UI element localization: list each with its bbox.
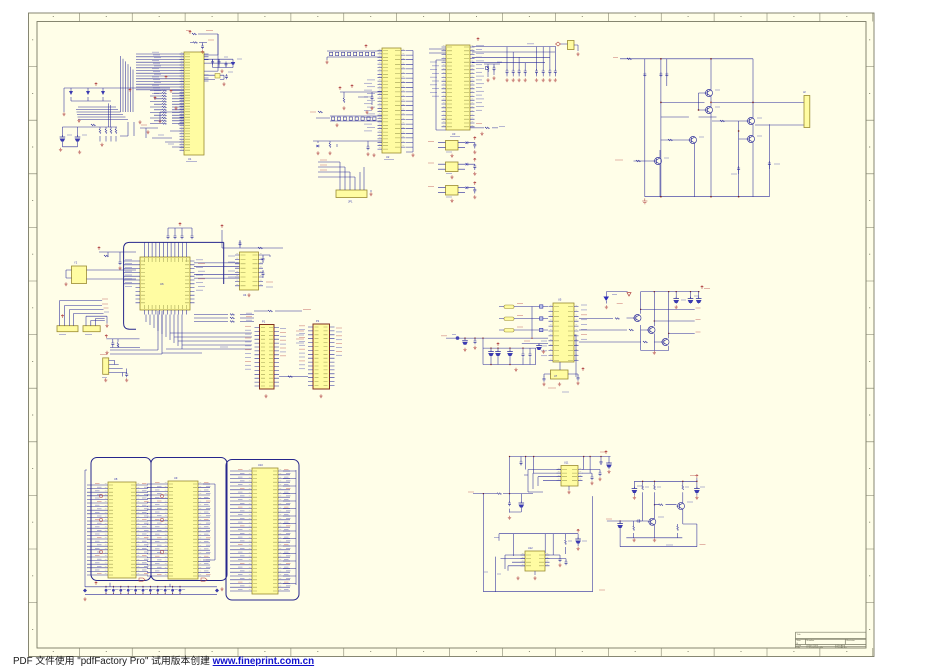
bypass caps C upper-left of stage [643, 59, 668, 197]
svg-text:U10: U10 [258, 463, 263, 467]
ground under crystal right of U1 [222, 82, 225, 86]
ground under R2 cap [201, 50, 204, 54]
svg-text:D:\Protel\mb.ddb: D:\Protel\mb.ddb [807, 646, 824, 649]
right parts of U11 [582, 470, 602, 485]
labels on JP1 wires [320, 160, 327, 170]
net labels on J3 wires [102, 299, 109, 312]
input line into Q10 [606, 519, 648, 523]
labels right of U3 pins [476, 46, 484, 111]
reset parts left-top of U6 [98, 247, 136, 270]
diode right of opto O3 [466, 186, 475, 189]
rail transistor block H3 [634, 475, 698, 489]
input filter diode/res/cap row [313, 141, 382, 150]
parts above J5 [105, 335, 140, 348]
transistor ref labels [664, 90, 762, 158]
crystal Y1 [556, 41, 579, 52]
ground under U2 right bus [411, 153, 414, 157]
resistor R2 above U1 [190, 40, 214, 49]
labels right of U8 [142, 484, 149, 574]
VCC opto O1 [473, 137, 476, 140]
junction dots H3 rail [620, 481, 698, 522]
VCC flag on resistor row [95, 582, 98, 585]
wires right of U8 [141, 485, 148, 575]
labels left of CON-A [245, 326, 251, 369]
op-amp U1 main controller [180, 52, 209, 162]
opto-coupler O3 [438, 186, 465, 196]
resistor network RN2 row [316, 111, 382, 121]
ground left end resistor row [83, 597, 86, 601]
labels on fan wires [220, 331, 304, 347]
resistor run right of QFP lower [254, 310, 311, 312]
wires QFP left pins to bus [124, 261, 136, 284]
voltage regulator U7 [544, 362, 578, 379]
labels left of U3 pins [430, 62, 439, 96]
ecap right on H3 rail [694, 487, 705, 500]
svg-text:U5: U5 [558, 298, 562, 302]
wire bus left of U3 [429, 49, 446, 130]
op-amp U10 memory IC [247, 463, 283, 594]
cap left of U11 [520, 457, 523, 466]
node diamonds on resistor row [83, 589, 219, 593]
bias parts middle-left of U2 [339, 85, 382, 105]
fuse F1 pill [499, 304, 548, 309]
mesh wires left of U12 [501, 555, 526, 571]
junction dots divider [464, 338, 532, 366]
opto-coupler O2 [438, 162, 465, 172]
top rail U12 [494, 529, 579, 556]
left vertical bus H [483, 494, 605, 592]
ground left of J5 [105, 351, 108, 355]
resistor right drop U12 [565, 540, 572, 554]
labels opto O2 [428, 163, 452, 174]
power VCC flag above diodes [95, 83, 98, 86]
wire power rail top-right block [620, 59, 769, 197]
decoupling ladder right of U1 [204, 57, 242, 68]
transistor Q4 [747, 136, 755, 143]
ferrite beads on F wires [540, 305, 543, 332]
grounds opto O3 [450, 195, 476, 202]
cap and ground at U7 [542, 368, 584, 386]
port arrow under card1 IC [139, 578, 145, 581]
svg-text:P2: P2 [316, 319, 320, 323]
labels around U5 [541, 305, 587, 356]
ground under card3 [220, 587, 223, 591]
svg-text:Number: Number [807, 639, 815, 642]
ground under U4 [247, 293, 250, 297]
ground bottom of output stage [642, 198, 647, 203]
ground under U3 run [480, 132, 483, 136]
connector J5 vertical header [103, 358, 127, 374]
wire bus into U1 left pins [76, 54, 184, 127]
cap right of opto O2 [473, 164, 476, 170]
svg-text:U6: U6 [160, 282, 164, 286]
resistor under input node [633, 521, 635, 538]
grounds under VCC rail caps [675, 296, 700, 309]
crystal Y2 block [66, 261, 136, 284]
power parts right-top of U6 [221, 225, 283, 249]
svg-text:U9: U9 [174, 476, 178, 480]
right parts of U12 [545, 555, 568, 567]
wires QFP top pins to bus [145, 243, 187, 253]
wires left of U8 [87, 485, 103, 575]
op-amp U9 memory IC [163, 476, 203, 579]
labels left of U2 mid pins [364, 80, 375, 131]
labels left of U10 [238, 470, 245, 590]
labels right of CON-B [336, 328, 342, 355]
input feed line H [468, 492, 533, 494]
resistor network row under cards [85, 586, 217, 594]
grounds input filter row [316, 151, 375, 157]
bottom output wire H3 [620, 545, 705, 547]
labels under J3 J4 [59, 334, 92, 336]
caps lower area of stage [737, 161, 771, 174]
wires U4 to U6 [194, 263, 240, 278]
fuse F2 pill [499, 316, 548, 321]
port arrows card2 [160, 494, 163, 553]
VCC opto O3 [473, 182, 476, 185]
grounds under CON-A CON-B [264, 394, 322, 398]
ground top-right of U11 [607, 470, 610, 474]
resistor column R into Q11 collector [682, 485, 689, 503]
VCC flag above RN1 [365, 45, 368, 48]
diode right of opto O1 [466, 141, 475, 144]
ground under U12 [516, 571, 536, 580]
transistor Q5 [689, 137, 697, 144]
power rails right of U3 with caps [472, 47, 557, 77]
transistor Q2 [705, 107, 713, 114]
wires right of U10 [283, 471, 290, 591]
labels opto O1 [428, 142, 452, 153]
connector J4 header [83, 316, 107, 332]
svg-text:U12: U12 [528, 547, 533, 550]
cap right of opto O1 [473, 143, 476, 149]
transistor Q3 [747, 118, 755, 125]
ecap on input node [617, 521, 623, 547]
svg-text:U11: U11 [564, 462, 569, 465]
ground under transistor emitters [653, 351, 656, 355]
cap right of opto O3 [473, 188, 476, 194]
ground symbols under capacitor bank [59, 143, 104, 154]
resistor R pullup above U1 [186, 31, 218, 56]
ground under bundle left end [77, 119, 80, 123]
parts right of J5 [100, 355, 128, 382]
mesh wires left of U11 [524, 470, 561, 493]
svg-text:Y2: Y2 [74, 261, 78, 265]
junction dots output stage [660, 58, 754, 197]
output wires right cluster F [641, 308, 701, 333]
decoupling above U6 [167, 228, 194, 239]
diode right of opto O2 [466, 163, 475, 166]
ground left of Y2 [64, 282, 67, 286]
ground right of JP1 [369, 190, 372, 196]
label column U1 pins [152, 52, 161, 93]
bottom ground rail H3 [626, 538, 682, 542]
ground right of crystal [576, 52, 579, 56]
op-amp U6 QFP micro [136, 253, 195, 315]
vertical feed right of U5 [574, 335, 576, 377]
wires left of U10 [230, 471, 247, 591]
fuse F3 pill [499, 327, 548, 332]
red label left of RN2 [310, 111, 316, 113]
ground row under cap rail [505, 78, 557, 82]
svg-text:Drawn By:: Drawn By: [837, 646, 847, 649]
op-amp U8 memory IC [103, 477, 141, 578]
resistor in Q5 base wire [668, 139, 672, 141]
svg-text:U8: U8 [114, 477, 118, 481]
ecap right of U12 rail [575, 537, 587, 550]
wires from JP1 up-left [318, 162, 364, 186]
resistor array rows feeding U1 [150, 90, 184, 125]
connector J3 header [57, 301, 104, 332]
labels opto O3 [428, 187, 452, 198]
labels right of U4 cluster [266, 282, 273, 287]
transistor Q6 [654, 158, 662, 165]
junction dots U11 area [483, 456, 602, 494]
connector JP1 header [336, 186, 367, 204]
opto-coupler O1 [438, 141, 465, 151]
VCC opto O2 [473, 158, 476, 161]
transistor Q10 [648, 517, 664, 525]
labels right of CON-A [280, 329, 286, 356]
labels lower-left wires [141, 125, 174, 144]
resistor network RN1 row [327, 51, 382, 57]
top rail U11 [510, 451, 611, 494]
base wire Q11 with resistor [655, 504, 677, 506]
connector CON2 speaker [803, 90, 810, 128]
wires right of U9 to bus [203, 484, 215, 560]
junction dots F rail [640, 291, 699, 334]
resistor column R into Q10 base node [642, 485, 649, 521]
VCC flag above U3 [477, 38, 480, 41]
op-amp U11 [557, 462, 583, 487]
connector CON-A 40pin [255, 320, 280, 390]
svg-text:U1: U1 [188, 157, 192, 161]
transistor Q8 [579, 327, 655, 334]
caps top-right of U11 rail [600, 460, 612, 470]
VCC flag near J3 [61, 315, 64, 318]
caps on VCC rail [673, 292, 701, 304]
labels left of U9 [155, 483, 162, 575]
wire drops to J5 [110, 311, 162, 354]
VCC input label top-right [613, 58, 631, 60]
labels near lower caps [731, 164, 780, 174]
LED D5 indicator [603, 292, 631, 309]
resistor run under U3 [470, 124, 505, 129]
labels left of QFP [125, 260, 132, 287]
ground under RN2 [335, 123, 338, 127]
grounds divider H [508, 516, 511, 520]
connector CON-B 40pin [308, 319, 335, 389]
labels left of CON-B [299, 326, 305, 369]
wire bus right of U2 [406, 51, 413, 153]
transistor Q11 [677, 502, 694, 510]
resistor in Q6 base wire [636, 160, 640, 162]
resistor in Q3 base wire [720, 120, 724, 122]
wires interconnect output stage [634, 59, 805, 197]
op-amp U3 interface IC [442, 45, 475, 137]
ground under divider cluster [514, 368, 517, 372]
svg-text:JP1: JP1 [348, 200, 353, 204]
three serial wires QFP to CON-A [194, 313, 254, 322]
wire CON-A to CON-B link [279, 376, 308, 378]
input chain into U5 [441, 335, 548, 345]
divider under input feed [508, 494, 524, 513]
labels right of QFP [196, 260, 205, 290]
wire card IC bottoms to row [110, 583, 170, 587]
wires right of U10 to slot edge [283, 470, 296, 585]
ground left of RN1 [325, 57, 328, 64]
port arrows card1 [99, 494, 102, 553]
op-amp U5 sensor IC [549, 298, 579, 363]
ground right of J4 [105, 324, 108, 328]
op-amp U4 RS232 level shifter [235, 252, 263, 297]
ground under ladder right of U1 [220, 69, 223, 73]
capacitor bank C1 C2 bottom-left [60, 127, 117, 147]
svg-text:U2: U2 [386, 155, 390, 159]
wire stubs lower-left of U1 [120, 112, 184, 147]
op-amp U12 [521, 547, 550, 571]
grounds opto O1 [450, 150, 476, 157]
svg-text:Revision: Revision [847, 640, 856, 642]
ground below diode group [62, 112, 65, 116]
labels left of U4 [228, 256, 235, 277]
bus outline card slot 1 [91, 458, 151, 581]
scattered ground/power marks cluster A [129, 76, 178, 134]
transistor Q1 [705, 90, 713, 97]
labels under U5 area [548, 388, 569, 392]
ground on input chain [463, 346, 476, 352]
label above rails [527, 43, 534, 45]
resistor column under rail [91, 124, 117, 141]
crystal group right of U1 [204, 34, 233, 79]
node vertical joining F wires [531, 307, 533, 338]
bus outline card slot 2 [151, 458, 227, 581]
VCC rail above transistors [641, 286, 710, 339]
mid vertical bus H [484, 496, 593, 592]
wires left of U9 [147, 484, 163, 576]
ground bias parts [342, 106, 373, 114]
labels right of U9 [204, 483, 211, 575]
diode group D1-D3 [64, 88, 170, 112]
svg-text:P1: P1 [262, 320, 266, 324]
svg-text:U4: U4 [243, 293, 247, 297]
labels right of U10 [284, 470, 291, 590]
bus rounded route around U6 [124, 242, 224, 329]
svg-text:U3: U3 [452, 132, 456, 136]
caps right of U4 [262, 255, 271, 278]
bus outline card slot 3 [226, 460, 299, 601]
transistor Q7 [579, 315, 641, 322]
second chain into U5 with ecap [522, 341, 548, 353]
audio input label [615, 159, 623, 161]
wire fan below U6 [146, 315, 252, 354]
port arrow under card2 IC [201, 578, 207, 581]
resistor divider cluster under U5-left [483, 338, 536, 364]
wires right of U9 [203, 484, 210, 576]
op-amp U2 driver IC [378, 48, 406, 160]
emitter branch Q11 [677, 509, 697, 546]
collector wire Q10 [654, 505, 656, 538]
VCC above U6 [179, 223, 182, 226]
left bus vertical card area [85, 470, 87, 587]
ecap left on H3 rail [632, 486, 642, 499]
ground under U11 [567, 486, 570, 494]
resistor column R into Q11 base node [654, 485, 661, 504]
RC network below U3 right [484, 62, 502, 77]
grounds opto O2 [450, 172, 476, 179]
grounds RC network [486, 76, 495, 82]
labels left of U8 [95, 484, 102, 574]
bottom rail under transistors [641, 325, 669, 350]
transistor Q9 [579, 339, 669, 346]
